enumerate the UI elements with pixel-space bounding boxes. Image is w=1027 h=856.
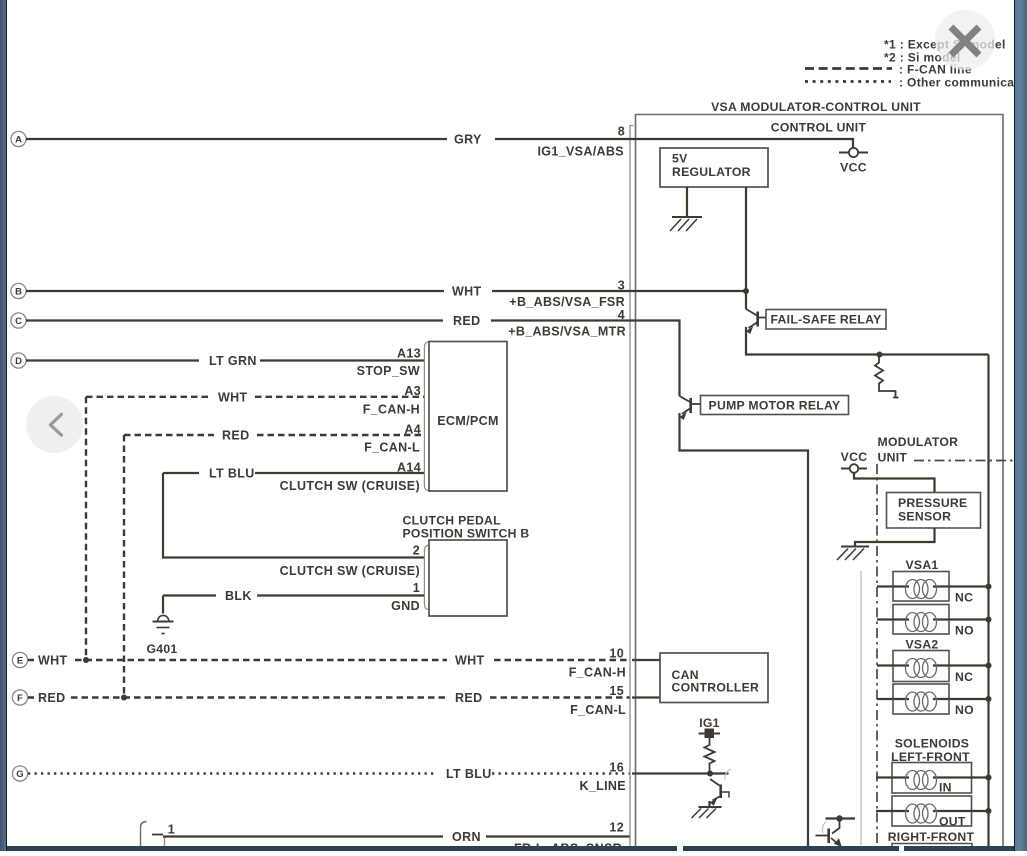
right bus wire [987, 355, 989, 852]
solenoid left-front IN box [892, 763, 972, 794]
ECM/PCM connector bracket [424, 342, 429, 491]
wire BLK to ground G401 [162, 596, 164, 614]
legend F-CAN dashed line sample [805, 67, 892, 70]
pin 1 (FR-L sensor) [152, 834, 163, 836]
wire ORN FR-L ABS sensor [163, 835, 630, 837]
node E terminal circle [12, 652, 27, 667]
transistor Q4 pump motor driver [826, 817, 856, 819]
wire regulator to fail-safe relay [745, 187, 747, 309]
wire pump motor relay down [680, 413, 809, 851]
wire pressure sensor to ground [855, 528, 935, 546]
fail-safe relay box [766, 310, 886, 330]
transistor Q2 pump motor relay driver [680, 396, 691, 414]
clutch switch connector bracket [424, 545, 429, 609]
ground (K-line transistor) [699, 806, 722, 808]
wire F inside unit [632, 696, 660, 698]
wire A14 LT BLU clutch sw [163, 472, 424, 474]
solenoid VSA2 NO box [893, 684, 949, 714]
legend other-communication dotted line sample [805, 80, 891, 83]
junction resistor node [877, 352, 883, 358]
wire regulator to ground [686, 187, 688, 216]
resistor R1 (fail-safe coil) [875, 355, 899, 398]
wire G LT BLU K-LINE dotted [28, 772, 630, 774]
right viewer bar [1014, 0, 1016, 851]
close button [935, 10, 995, 70]
ground (5V regulator) [672, 216, 702, 218]
solenoid VSA1 NO box [893, 605, 949, 635]
VSA MODULATOR-CONTROL UNIT box [636, 115, 1004, 852]
wire B WHT +B_ABS/VSA_FSR [26, 290, 746, 292]
junction E branch [83, 657, 89, 663]
bottom viewer bar segments [7, 846, 677, 851]
wire BLK GND [163, 594, 424, 596]
wire A GRY IG1_VSA/ABS [26, 139, 853, 148]
nav chevron button [26, 396, 83, 453]
wire F-CAN-H WHT dashed to ECM [86, 396, 424, 398]
VCC symbol (top) [849, 148, 858, 157]
CAN controller box [660, 653, 768, 703]
connector line FR-L sensor [164, 837, 166, 851]
pressure sensor box [887, 493, 981, 529]
node B terminal circle [11, 283, 26, 298]
left viewer bar [0, 0, 6, 851]
junction F branch [121, 695, 127, 701]
solenoid group guide line [860, 571, 862, 845]
wire C RED +B_ABS/VSA_MTR [26, 321, 680, 397]
wire F-CAN-L RED dashed to ECM [124, 434, 424, 436]
junction B wire / relay drive [743, 288, 749, 294]
FR-L ABS sensor connector bracket [141, 822, 147, 852]
solenoid VSA2 NC box [893, 651, 949, 682]
clutch pedal position switch B box [429, 540, 507, 616]
modulator unit boundary dash-dot vertical [876, 464, 878, 851]
ground G401 [158, 615, 169, 620]
connector line of VSA unit (8P) [630, 126, 634, 852]
wire D LT GRN STOP_SW [26, 359, 424, 361]
node F terminal circle [12, 690, 27, 705]
pump motor relay box [701, 396, 849, 415]
solenoid left-front OUT box [892, 796, 972, 826]
dashed vertical wire F-CAN-H branch [85, 397, 87, 660]
node D terminal circle [11, 353, 26, 368]
transistor Q3 K-line [710, 779, 720, 786]
wire VCC to pressure sensor [854, 473, 935, 493]
transistor Q1 fail-safe relay driver [746, 309, 757, 328]
node G terminal circle [12, 766, 27, 781]
dashed vertical wire F-CAN-L branch [123, 435, 125, 698]
ground (pressure sensor) [841, 546, 869, 548]
wire clutch branch down to switch [163, 473, 424, 558]
wire fail-safe to right bus [746, 327, 989, 355]
resistor R2 (K-line pull-up) [705, 738, 715, 774]
wire E inside unit [632, 659, 660, 661]
node C terminal circle [11, 313, 26, 328]
solenoid right-front partial box [892, 844, 972, 852]
IG1 power symbol [705, 729, 715, 739]
5V regulator box [660, 148, 768, 187]
modulator unit boundary dash-dot horizontal [914, 460, 1014, 462]
wire K-line inside unit [632, 772, 729, 774]
solenoid VSA1 NC box [893, 572, 949, 602]
junction K-line [707, 771, 713, 777]
wire to ground (K-line) [708, 801, 710, 807]
ECM/PCM box [429, 342, 507, 492]
node A terminal circle [11, 131, 26, 146]
